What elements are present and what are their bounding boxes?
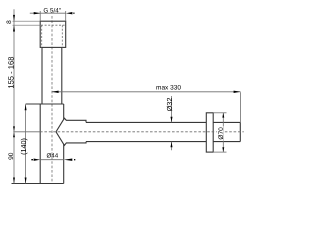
dim Ø44 (31, 159, 33, 161)
vertical centerline of siphon (51, 16, 53, 184)
dim 90 (13, 132, 15, 137)
dim Ø70 (214, 112, 227, 114)
union nut G5/4 body (40, 21, 65, 47)
svg-text:8: 8 (6, 20, 13, 24)
outlet pipe bottom edge (86, 141, 206, 143)
body top line + extension to (140) (26, 103, 64, 105)
outlet pipe top edge (86, 121, 206, 123)
svg-text:155 - 168: 155 - 168 (7, 57, 16, 89)
dim Ø32 (171, 96, 173, 122)
svg-text:G 5/4": G 5/4" (43, 7, 61, 14)
svg-text:Ø70: Ø70 (218, 127, 225, 140)
svg-text:(140): (140) (19, 138, 28, 155)
wall flange rosette (206, 113, 213, 152)
dim 8 (left top) (13, 9, 15, 183)
pipe right end (239, 122, 241, 141)
svg-text:Ø32: Ø32 (165, 98, 174, 112)
horizontal pipe centerline (13, 131, 40, 133)
svg-text:max 330: max 330 (156, 85, 181, 92)
trap body cup (39, 104, 41, 184)
hidden washer line inside nut (41, 24, 65, 26)
hidden pipe edges inside nut (41, 25, 43, 47)
svg-text:Ø44: Ø44 (46, 152, 58, 159)
outlet cone lower edge (56, 132, 86, 146)
outlet cone upper edge (56, 118, 86, 132)
dim max 330 (52, 91, 241, 93)
inlet tailpipe (41, 47, 43, 104)
svg-text:90: 90 (8, 152, 15, 160)
body bottom line + extension to left dims (12, 183, 64, 185)
dim G 5/4" (39, 11, 41, 21)
dim (140) (25, 104, 27, 183)
